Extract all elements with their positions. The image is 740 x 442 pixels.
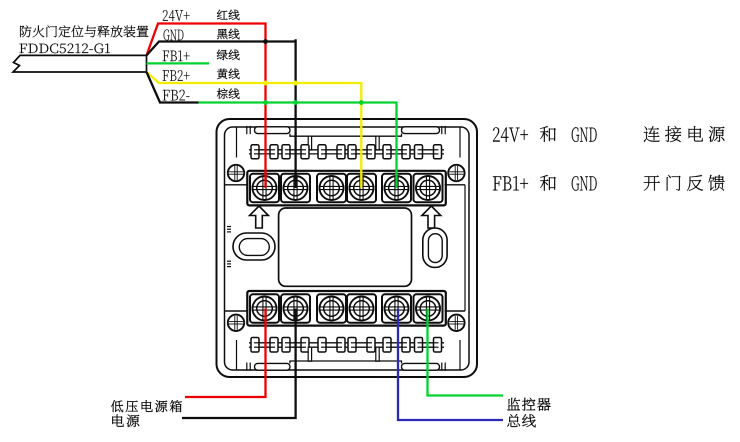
label FDDC5212-G1: [19, 44, 110, 54]
note 和 1: [540, 126, 556, 142]
top wire clamp rail: [249, 149, 444, 151]
junction dot green at black: [293, 100, 298, 105]
wire FB1+ green stub: [147, 62, 210, 64]
corner screw shelf bottom-left: [225, 310, 247, 312]
central window: [279, 208, 412, 286]
wire power red bottom: [185, 309, 266, 398]
module inner case: [225, 127, 470, 370]
bottom wire clamp 4: [348, 338, 356, 353]
bottom clamp tabs: [308, 347, 311, 361]
top wire clamp 5: [383, 145, 391, 159]
corner screw shelf top-left: [225, 184, 247, 186]
label 低压电源箱: [111, 400, 182, 412]
orientation arrow right: [422, 206, 441, 228]
bottom wire clamp 2: [282, 338, 290, 353]
corner screw shelf top-right: [445, 184, 465, 186]
top terminal screw 3: [317, 174, 346, 202]
wire GND black fan: [147, 42, 296, 56]
label 监控器: [507, 398, 550, 411]
junction dot yellow at red: [263, 81, 268, 86]
orientation arrow left: [250, 206, 269, 228]
left oval knockout: [233, 233, 275, 260]
top wire clamp 6: [415, 145, 423, 159]
label FB1+: [163, 50, 190, 61]
top wire clamp 1: [251, 145, 259, 159]
corner screw bottom-right: [448, 315, 464, 331]
bottom terminal screw 3: [317, 294, 346, 322]
wire power black bottom: [182, 309, 296, 419]
junction dot green at red: [263, 100, 268, 105]
label FB2+: [163, 70, 190, 81]
wire bus green bottom: [428, 309, 504, 396]
label 防火门定位与释放装置: [20, 25, 148, 37]
corner screw shelf bottom-right: [445, 310, 465, 312]
junction dot green at yellow: [359, 100, 364, 105]
bottom wire clamp 6: [415, 338, 423, 353]
top wire clamp 4: [348, 145, 356, 159]
label 24V+: [163, 10, 190, 21]
bottom terminal screw 6: [414, 294, 443, 322]
label 绿线: [217, 50, 240, 61]
top terminal screw 1: [250, 174, 279, 202]
note FB1+: [493, 176, 528, 190]
top wire clamp 2: [282, 145, 290, 159]
wire FB2- green continuation: [199, 103, 397, 189]
device cable 防火门定位与释放装置 FDDC5212-G1: [13, 55, 147, 72]
note GND 2: [572, 176, 597, 191]
bottom wire clamp 1: [251, 338, 259, 353]
top-left mounting slot: [255, 127, 291, 134]
left edge vents: [227, 226, 231, 228]
top terminal screw 4: [347, 174, 376, 202]
bottom wire clamp rail: [249, 342, 444, 344]
note GND 1: [572, 127, 597, 142]
right inner panel line: [464, 185, 466, 311]
note 24V+: [493, 127, 528, 142]
label 电源: [112, 414, 139, 427]
label FB2-: [163, 90, 190, 101]
bottom wire clamp 3: [318, 338, 326, 353]
bottom-right mounting slot: [402, 363, 440, 370]
device cable end edge: [146, 55, 148, 72]
module outer case: [217, 119, 478, 377]
top terminal screw 6: [414, 174, 443, 202]
right oval knockout: [423, 228, 447, 267]
top tray step line: [290, 134, 402, 137]
note 和 2: [540, 175, 556, 191]
junction dot red-black: [263, 39, 268, 44]
corner screw top-right: [448, 165, 464, 181]
top-right mounting slot: [402, 127, 440, 134]
label 红线: [217, 10, 239, 21]
wire GND black vertical: [294, 39, 296, 188]
bottom terminal screw 1: [250, 294, 279, 322]
wire bus blue bottom: [398, 309, 503, 421]
label GND: [164, 29, 184, 40]
corner screw bottom-left: [228, 315, 244, 331]
bottom terminal screw 5: [382, 294, 411, 322]
top terminal screw 5: [382, 174, 411, 202]
wire 24V+ red: [147, 24, 266, 189]
label 黄线: [217, 69, 240, 80]
top terminal screw 2: [281, 174, 310, 202]
top terminal strip: [247, 171, 445, 206]
bottom tray step line: [290, 361, 402, 363]
label 棕线: [217, 88, 240, 99]
note 开门反馈: [644, 175, 725, 191]
bottom terminal strip: [247, 291, 445, 326]
wire FB2+ yellow: [147, 72, 362, 188]
corner screw top-left: [228, 165, 244, 181]
bottom tray side walls: [236, 340, 238, 370]
junction dot yellow at black: [293, 81, 298, 86]
bottom terminal screw 2: [281, 294, 310, 322]
top wire clamp 3: [318, 145, 326, 159]
wire FB2- black stub: [147, 72, 199, 103]
label 黑线: [217, 29, 240, 40]
bottom-left mounting slot: [255, 363, 291, 370]
top tray side walls: [236, 127, 238, 158]
label 总线: [507, 414, 536, 427]
note 连接电源: [644, 126, 725, 142]
bottom terminal screw 4: [347, 294, 376, 322]
bottom wire clamp 5: [383, 338, 391, 353]
top clamp tabs: [308, 136, 311, 150]
